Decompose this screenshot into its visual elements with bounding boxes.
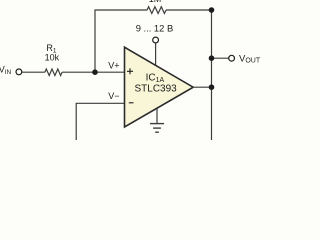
ground [150, 123, 164, 125]
svg-text:V−: V− [108, 91, 119, 101]
svg-text:10k: 10k [45, 53, 60, 63]
svg-text:1M: 1M [149, 0, 162, 4]
svg-text:V+: V+ [108, 61, 119, 71]
output terminal VOUT [229, 55, 235, 61]
wire VIN to R1 [22, 71, 45, 73]
wire R2 to output node [166, 9, 212, 11]
junction dot top output node [209, 7, 215, 13]
wire node A up to feedback resistor R2 [95, 10, 147, 72]
junction dot VOUT tap [209, 55, 215, 61]
wire V- input from below [76, 103, 124, 140]
wire output node to VOUT terminal [212, 57, 229, 59]
svg-text:STLC393: STLC393 [135, 84, 178, 95]
wire op-amp output to output node [193, 86, 212, 88]
resistor R2 (feedback) [147, 7, 166, 14]
resistor R1 [45, 69, 62, 76]
op-amp IC1A triangle [125, 47, 194, 127]
input terminal VIN [16, 69, 22, 75]
wire R1 to node A [62, 71, 124, 73]
wire op-amp ground pin to ground [156, 104, 158, 124]
op-amp non-inverting input marker + [127, 68, 133, 74]
svg-text:9 ... 12 В: 9 ... 12 В [136, 22, 174, 33]
junction dot op-amp output [209, 84, 215, 90]
svg-text:VIN: VIN [0, 65, 12, 76]
supply terminal circle [153, 37, 159, 43]
svg-text:VOUT: VOUT [239, 53, 260, 64]
wire output node vertical [211, 10, 213, 140]
op-amp inverting input marker - [129, 102, 134, 104]
wire supply to op-amp power pin [155, 43, 157, 68]
node A junction dot [92, 69, 98, 75]
